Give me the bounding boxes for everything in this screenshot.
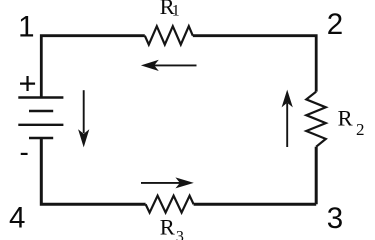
label R3 xyxy=(160,214,184,240)
svg-text:1: 1 xyxy=(18,10,34,43)
svg-text:3: 3 xyxy=(327,202,343,235)
wire top-right segment (R1 to node 2, down to R2) xyxy=(193,36,316,92)
svg-text:R: R xyxy=(338,105,353,130)
battery B1 plate short upper xyxy=(29,110,53,112)
svg-text:1: 1 xyxy=(172,3,180,20)
current arrow pointing down (right of battery) xyxy=(78,90,89,147)
label R2 xyxy=(338,105,365,138)
wire bottom-right segment (node 3 to R3) xyxy=(194,203,317,206)
svg-text:R: R xyxy=(160,214,175,239)
label R1 xyxy=(160,0,180,20)
svg-text:4: 4 xyxy=(9,201,25,234)
svg-text:2: 2 xyxy=(356,120,365,139)
battery B1 plate long lower xyxy=(18,124,63,126)
svg-text:-: - xyxy=(20,137,29,168)
wire right-bottom segment (R2 down to node 3) xyxy=(315,147,318,205)
svg-text:+: + xyxy=(18,65,36,100)
resistor R2 xyxy=(306,92,326,147)
svg-text:3: 3 xyxy=(176,228,184,240)
wire bottom-left segment (R3 to node 4, up to battery -) xyxy=(41,138,145,204)
resistor R3 xyxy=(146,196,194,213)
current arrow pointing right (above R3) xyxy=(141,177,194,188)
current arrow pointing up (left of R2) xyxy=(282,90,293,147)
resistor R1 xyxy=(145,26,193,44)
battery B1 plate long top (positive terminal) xyxy=(18,96,63,98)
svg-text:2: 2 xyxy=(327,8,343,41)
current arrow pointing left (under R1) xyxy=(141,60,197,71)
wire node1 top-left segment (battery + up to node 1, across to R1) xyxy=(41,36,145,98)
battery B1 plate short bottom (negative terminal) xyxy=(29,137,53,139)
